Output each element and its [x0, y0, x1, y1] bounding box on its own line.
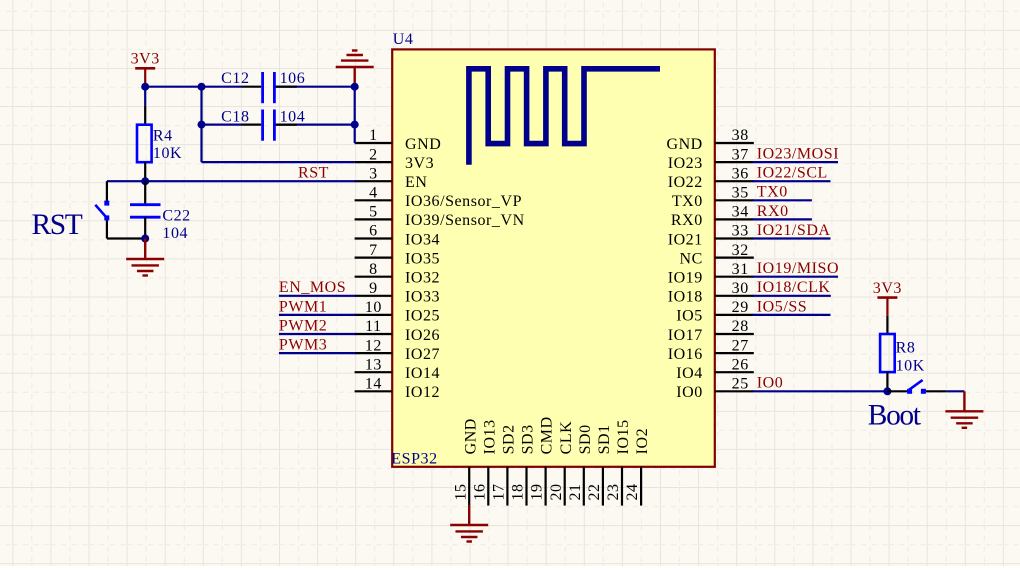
- svg-text:EN: EN: [405, 174, 427, 191]
- pin 7 line: [355, 257, 393, 259]
- svg-text:IO34: IO34: [405, 231, 440, 248]
- wire net IO0: [753, 390, 888, 392]
- svg-text:19: 19: [529, 483, 546, 500]
- pin 12 line: [355, 352, 393, 354]
- svg-text:30: 30: [732, 280, 749, 297]
- wire net PWM2: [279, 333, 356, 335]
- pin 38 line: [715, 142, 754, 144]
- capacitor C12 plates: [263, 72, 275, 103]
- wire RST row: [107, 180, 356, 182]
- IC U4 ESP32 module body: [392, 49, 715, 466]
- ground symbol below pin 15: [450, 506, 488, 542]
- svg-text:20: 20: [548, 483, 565, 500]
- svg-text:CMD: CMD: [539, 416, 556, 454]
- svg-text:IO0: IO0: [676, 384, 703, 401]
- wire corner to pin1: [354, 142, 357, 144]
- pin 26 line: [715, 371, 754, 373]
- svg-text:SD0: SD0: [577, 424, 594, 454]
- pin 32 line: [715, 257, 754, 259]
- wire net PWM3: [279, 352, 356, 354]
- wire net IO18/CLK: [753, 295, 831, 297]
- svg-text:26: 26: [732, 356, 749, 373]
- svg-text:33: 33: [732, 223, 749, 240]
- svg-text:IO35: IO35: [405, 250, 440, 267]
- switch Boot contact right: [921, 389, 926, 394]
- svg-text:106: 106: [280, 70, 306, 87]
- ground symbol top (pin1 GND): [336, 51, 374, 87]
- svg-text:SD1: SD1: [596, 424, 613, 454]
- junction GND rail top: [351, 83, 359, 91]
- junction C18 right: [351, 121, 359, 129]
- svg-text:104: 104: [162, 225, 188, 242]
- svg-text:IO0: IO0: [757, 375, 784, 392]
- svg-text:IO26: IO26: [405, 327, 440, 344]
- svg-text:12: 12: [365, 337, 382, 354]
- wire net EN_MOS: [279, 295, 356, 297]
- wire to pin2 3V3: [202, 161, 355, 163]
- svg-text:RX0: RX0: [671, 212, 703, 229]
- svg-text:RST: RST: [32, 209, 83, 241]
- wire net IO5/SS: [753, 314, 831, 316]
- svg-text:25: 25: [732, 376, 749, 393]
- pin 18 line: [525, 467, 527, 506]
- svg-text:RST: RST: [298, 165, 329, 182]
- svg-text:SD2: SD2: [501, 424, 518, 454]
- svg-text:IO4: IO4: [676, 365, 703, 382]
- svg-text:IO22: IO22: [668, 174, 703, 191]
- pin 13 line: [355, 371, 393, 373]
- power symbol 3V3 left: [131, 51, 160, 87]
- antenna meander graphic: [469, 69, 660, 165]
- switch RST contact top: [104, 201, 109, 206]
- pin 23 line: [621, 467, 623, 506]
- wire C18 right: [275, 123, 355, 125]
- pin 17 line: [506, 467, 508, 506]
- svg-text:29: 29: [732, 299, 749, 316]
- pin 20 line: [564, 467, 566, 506]
- pin 29 line: [715, 314, 754, 316]
- svg-text:IO21: IO21: [668, 231, 703, 248]
- svg-text:13: 13: [365, 356, 382, 373]
- svg-text:27: 27: [732, 337, 749, 354]
- capacitor C22 plates: [130, 205, 161, 218]
- pin 24 line: [640, 467, 642, 506]
- svg-text:IO25: IO25: [405, 308, 440, 325]
- svg-text:37: 37: [732, 146, 749, 163]
- svg-text:C22: C22: [162, 207, 190, 224]
- wire net IO19/MISO: [753, 276, 838, 278]
- svg-text:IO21/SDA: IO21/SDA: [757, 222, 831, 239]
- svg-text:Boot: Boot: [868, 399, 922, 431]
- svg-text:18: 18: [510, 483, 527, 500]
- svg-text:3V3: 3V3: [405, 155, 434, 172]
- svg-text:7: 7: [369, 242, 378, 259]
- ground symbol below C22: [126, 239, 164, 276]
- resistor R4 pin bottom: [144, 162, 146, 181]
- wire 3V3 riser vertical: [200, 87, 202, 162]
- pin 33 line: [715, 237, 754, 239]
- svg-text:R4: R4: [153, 128, 173, 145]
- wire net RX0: [753, 218, 812, 220]
- svg-text:31: 31: [732, 261, 749, 278]
- pin 21 line: [583, 467, 585, 506]
- capacitor C18 plates: [263, 110, 275, 141]
- switch RST top lead: [106, 181, 108, 201]
- junction R4-RST: [141, 177, 149, 185]
- pin 34 line: [715, 218, 754, 220]
- svg-text:IO19/MISO: IO19/MISO: [757, 260, 839, 277]
- pin 10 line: [355, 314, 393, 316]
- svg-text:NC: NC: [679, 250, 702, 267]
- wire net IO22/SCL: [753, 180, 831, 182]
- switch RST lever: [95, 205, 107, 219]
- svg-text:5: 5: [369, 204, 378, 221]
- switch Boot right lead: [926, 390, 947, 392]
- power symbol 3V3 right: [873, 280, 902, 316]
- svg-text:IO16: IO16: [668, 346, 703, 363]
- pin 37 line: [715, 161, 754, 163]
- pin 4 line: [355, 199, 393, 201]
- svg-text:RX0: RX0: [757, 203, 789, 220]
- svg-text:IO22/SCL: IO22/SCL: [757, 165, 828, 182]
- svg-text:EN_MOS: EN_MOS: [279, 279, 346, 296]
- svg-text:PWM3: PWM3: [279, 337, 327, 354]
- pin 19 line: [544, 467, 546, 506]
- svg-text:IO39/Sensor_VN: IO39/Sensor_VN: [405, 212, 525, 229]
- capacitor C18 pin left: [242, 123, 262, 125]
- capacitor C22 pin top: [144, 181, 146, 205]
- switch Boot contact left: [907, 389, 912, 394]
- svg-text:28: 28: [732, 318, 749, 335]
- svg-text:6: 6: [369, 223, 378, 240]
- switch Boot lever: [909, 380, 922, 390]
- switch RST bottom lead: [106, 220, 108, 238]
- svg-text:GND: GND: [405, 136, 441, 153]
- pin 30 line: [715, 295, 754, 297]
- svg-text:38: 38: [732, 127, 749, 144]
- pin 14 line: [355, 390, 393, 392]
- pin 31 line: [715, 276, 754, 278]
- junction R8-IO0: [883, 387, 891, 395]
- svg-text:IO18/CLK: IO18/CLK: [757, 279, 831, 296]
- capacitor C12 pin left: [242, 86, 262, 88]
- svg-text:10: 10: [365, 299, 382, 316]
- svg-text:22: 22: [586, 483, 603, 500]
- svg-text:3V3: 3V3: [131, 51, 160, 68]
- svg-text:17: 17: [491, 483, 508, 500]
- junction C22 bottom: [141, 235, 149, 243]
- pin 15 line: [468, 467, 470, 506]
- pin 5 line: [355, 218, 393, 220]
- wire net IO21/SDA: [753, 237, 831, 239]
- svg-text:16: 16: [471, 483, 488, 500]
- wire net TX0: [753, 199, 812, 201]
- svg-text:104: 104: [280, 108, 306, 125]
- pin 6 line: [355, 237, 393, 239]
- wire net PWM1: [279, 314, 356, 316]
- svg-text:14: 14: [365, 376, 382, 393]
- svg-text:IO36/Sensor_VP: IO36/Sensor_VP: [405, 193, 522, 210]
- resistor R4 pin top wire: [144, 87, 146, 106]
- svg-text:32: 32: [732, 242, 749, 259]
- svg-text:PWM1: PWM1: [279, 298, 327, 315]
- pin 9 line: [355, 295, 393, 297]
- svg-text:2: 2: [369, 146, 378, 163]
- capacitor C18 pin right: [276, 123, 297, 125]
- svg-text:34: 34: [732, 204, 749, 221]
- svg-text:24: 24: [624, 483, 641, 500]
- svg-text:TX0: TX0: [672, 193, 703, 210]
- svg-text:23: 23: [605, 483, 622, 500]
- svg-text:IO15: IO15: [615, 419, 632, 454]
- svg-text:GND: GND: [666, 136, 702, 153]
- junction C18 left: [198, 121, 206, 129]
- junction riser top: [198, 83, 206, 91]
- svg-text:21: 21: [567, 483, 584, 500]
- wire C12 right to GND rail: [275, 86, 355, 88]
- pin 2 line: [355, 161, 393, 163]
- svg-text:IO12: IO12: [405, 384, 440, 401]
- resistor R8 pin top: [886, 316, 888, 334]
- svg-text:9: 9: [369, 280, 378, 297]
- svg-text:3V3: 3V3: [873, 280, 902, 297]
- wire C18 left: [202, 123, 242, 125]
- resistor R4 body: [137, 125, 152, 163]
- svg-text:10K: 10K: [153, 145, 182, 162]
- wire Boot to ground: [947, 390, 965, 392]
- pin 1 line: [355, 142, 393, 144]
- svg-text:IO18: IO18: [668, 289, 703, 306]
- wire switch to C22 bottom: [107, 237, 145, 239]
- pin 3 line: [355, 180, 393, 182]
- svg-text:IO32: IO32: [405, 270, 440, 287]
- pin 8 line: [355, 276, 393, 278]
- svg-text:SD3: SD3: [520, 424, 537, 454]
- svg-text:IO2: IO2: [634, 428, 651, 455]
- svg-text:ESP32: ESP32: [391, 450, 437, 467]
- ground symbol right of Boot: [945, 391, 983, 428]
- svg-text:IO23: IO23: [668, 155, 703, 172]
- svg-text:IO23/MOSI: IO23/MOSI: [757, 146, 839, 163]
- svg-text:IO19: IO19: [668, 270, 703, 287]
- svg-text:TX0: TX0: [757, 184, 788, 201]
- resistor R8 body: [880, 334, 895, 372]
- switch RST contact bottom: [104, 215, 109, 220]
- svg-text:1: 1: [369, 127, 378, 144]
- pin 35 line: [715, 199, 754, 201]
- svg-text:4: 4: [369, 185, 378, 202]
- svg-text:8: 8: [369, 261, 378, 278]
- resistor R8 pin bottom: [886, 372, 888, 391]
- svg-text:C12: C12: [221, 70, 249, 87]
- svg-text:IO27: IO27: [405, 346, 440, 363]
- pin 27 line: [715, 352, 754, 354]
- svg-text:15: 15: [452, 483, 469, 500]
- capacitor C22 pin bottom: [144, 217, 146, 238]
- svg-text:C18: C18: [221, 108, 249, 125]
- resistor R4 pin top: [144, 106, 146, 125]
- svg-text:IO5: IO5: [676, 308, 703, 325]
- svg-text:10K: 10K: [896, 358, 925, 375]
- pin 36 line: [715, 180, 754, 182]
- pin 25 line: [715, 390, 754, 392]
- pin 11 line: [355, 333, 393, 335]
- svg-text:IO17: IO17: [668, 327, 703, 344]
- switch Boot left lead: [887, 390, 907, 392]
- wire 3V3 rail top horizontal: [145, 86, 241, 88]
- svg-text:IO5/SS: IO5/SS: [757, 298, 807, 315]
- svg-text:PWM2: PWM2: [279, 317, 327, 334]
- svg-text:IO13: IO13: [481, 419, 498, 454]
- pin 28 line: [715, 333, 754, 335]
- pin 16 line: [487, 467, 489, 506]
- svg-text:IO33: IO33: [405, 289, 440, 306]
- capacitor C12 pin right: [276, 86, 297, 88]
- pin 22 line: [602, 467, 604, 506]
- svg-text:CLK: CLK: [558, 421, 575, 455]
- wire GND rail vertical: [354, 87, 356, 143]
- svg-text:3: 3: [369, 165, 378, 182]
- junction 3V3-R4: [141, 83, 149, 91]
- wire net IO23/MOSI: [753, 161, 838, 163]
- svg-text:36: 36: [732, 165, 749, 182]
- svg-text:R8: R8: [896, 340, 916, 357]
- svg-text:11: 11: [365, 318, 382, 335]
- svg-text:U4: U4: [393, 31, 414, 48]
- svg-text:35: 35: [732, 185, 749, 202]
- svg-text:IO14: IO14: [405, 365, 440, 382]
- svg-text:GND: GND: [462, 418, 479, 454]
